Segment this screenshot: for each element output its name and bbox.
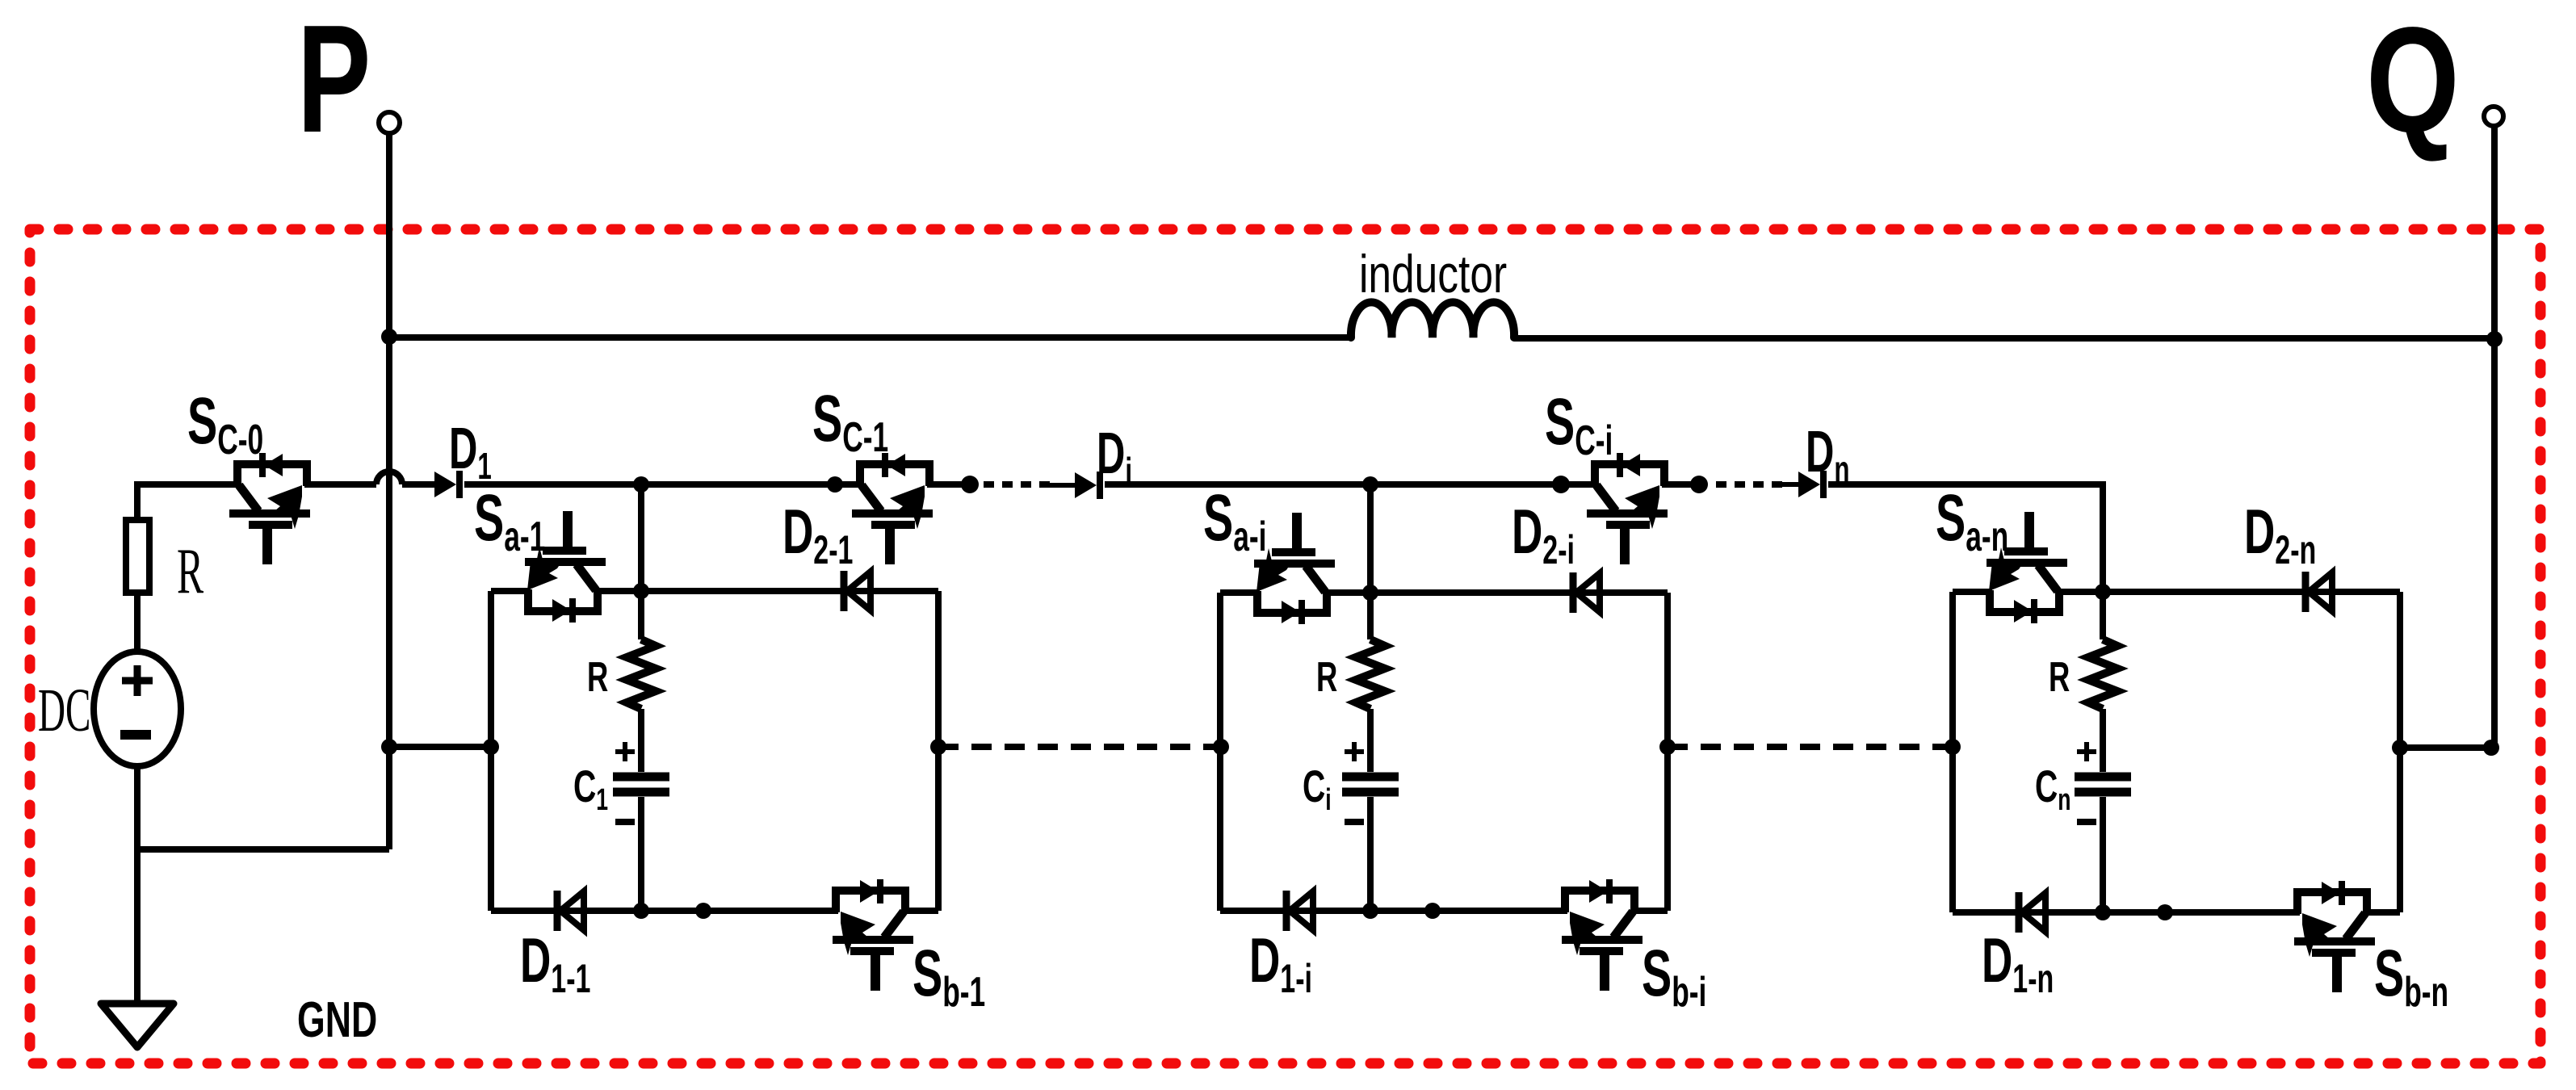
diode Dn xyxy=(1798,471,1823,498)
junction rail at cell i column xyxy=(1362,476,1378,493)
wire R to capacitor xyxy=(638,709,644,772)
diode D1 xyxy=(434,471,459,498)
dashed rail continuation xyxy=(984,481,1050,488)
junction dot right of column bottom xyxy=(1424,903,1441,919)
DC source minus xyxy=(120,730,151,740)
diode D_1-i xyxy=(1286,891,1313,931)
capacitor Ci plates xyxy=(1342,777,1399,792)
svg-text:Sa-1: Sa-1 xyxy=(474,480,545,560)
resistor R cell n xyxy=(2088,639,2117,709)
svg-text:Cn: Cn xyxy=(2035,761,2071,816)
DC source circle xyxy=(94,652,181,766)
wire DC bottom to P line xyxy=(137,846,389,853)
wire to Di xyxy=(1047,483,1075,488)
capacitor C1 plates xyxy=(613,777,669,792)
wire right of S_C-1 xyxy=(935,481,967,488)
svg-text:Sa-i: Sa-i xyxy=(1203,480,1266,560)
capacitor minus mark xyxy=(2077,819,2096,825)
junction cell i mid-right xyxy=(1659,739,1676,755)
dashed link cell i to cell n xyxy=(1668,744,1953,750)
svg-text:Sb-1: Sb-1 xyxy=(913,936,985,1015)
svg-text:GND: GND xyxy=(297,992,377,1048)
svg-text:Sb-i: Sb-i xyxy=(1642,936,1706,1015)
wire Di to S_C-i xyxy=(1105,481,1589,488)
svg-text:D1-n: D1-n xyxy=(1982,926,2054,1002)
wire capacitor down xyxy=(2100,797,2106,912)
cell i bottom wire xyxy=(1220,908,1668,914)
capacitor minus mark xyxy=(1345,819,1364,825)
svg-text:DC: DC xyxy=(38,677,90,744)
cell n left wire xyxy=(1949,592,1956,912)
terminal Q circle xyxy=(2484,107,2503,126)
cell n column wire upper xyxy=(2100,592,2106,639)
svg-text:Sb-n: Sb-n xyxy=(2374,936,2448,1015)
junction dot right of column bottom xyxy=(2157,904,2173,920)
wire hop over P line xyxy=(376,472,402,484)
switch S_a-i xyxy=(1252,513,1335,624)
switch S_a-n xyxy=(1984,512,2067,623)
junction right of S_C-1 xyxy=(961,476,979,493)
svg-text:D2-i: D2-i xyxy=(1512,497,1575,573)
svg-text:Q: Q xyxy=(2366,0,2460,164)
capacitor minus mark xyxy=(615,819,635,825)
junction column at cell bottom xyxy=(2095,904,2111,920)
capacitor plus mark xyxy=(2077,742,2096,761)
dashed rail continuation 2 xyxy=(1716,481,1785,488)
cell 1 right wire xyxy=(935,591,942,911)
cell n right wire xyxy=(2397,592,2403,912)
wire hop to D1 xyxy=(402,481,434,488)
junction column at cell top xyxy=(2095,584,2111,600)
junction column at cell bottom xyxy=(633,903,649,919)
switch S_C-0 xyxy=(229,453,313,564)
ground symbol xyxy=(101,1004,174,1047)
svg-text:D1-1: D1-1 xyxy=(520,926,590,1002)
wire cell n mid to Q line xyxy=(2400,744,2494,751)
junction top-left xyxy=(381,329,397,345)
junction rail at cell1 column xyxy=(633,476,649,493)
junction cell i mid-left xyxy=(1213,739,1229,755)
junction Q line bottom xyxy=(2483,740,2499,756)
switch S_C-i xyxy=(1587,453,1670,564)
wire to Dn xyxy=(1781,482,1798,487)
wire Dn to cell n column xyxy=(1828,484,2103,592)
switch S_a-1 xyxy=(522,511,606,623)
junction right of S_C-i xyxy=(1690,476,1708,493)
wire right of S_C-i xyxy=(1670,481,1699,488)
wire Q vertical xyxy=(2491,126,2498,748)
resistor R (rectangle) xyxy=(126,520,149,593)
wire capacitor down xyxy=(638,797,644,911)
cell 1 top wire xyxy=(491,588,938,594)
terminal P circle xyxy=(379,112,400,133)
wire top rail left of inductor xyxy=(389,334,1351,341)
diode Di xyxy=(1075,472,1100,499)
junction cell1 mid-left xyxy=(483,739,499,755)
svg-text:Ci: Ci xyxy=(1303,761,1332,816)
svg-text:D1-i: D1-i xyxy=(1249,926,1312,1002)
wire P vertical xyxy=(386,133,392,849)
wire capacitor down xyxy=(1367,797,1374,911)
svg-text:D1: D1 xyxy=(449,417,492,488)
wire from R up to S_C-0 xyxy=(137,484,232,520)
switch S_C-1 xyxy=(852,453,935,564)
svg-text:SC-i: SC-i xyxy=(1545,384,1613,463)
diode D_1-n xyxy=(2019,892,2045,933)
capacitor plus mark xyxy=(615,742,635,761)
capacitor Cn plates xyxy=(2075,777,2131,792)
wire R to capacitor xyxy=(1367,709,1374,772)
svg-text:C1: C1 xyxy=(573,761,608,816)
diode D_2-i xyxy=(1573,572,1600,613)
junction cell n mid-right xyxy=(2392,740,2408,756)
svg-text:SC-0: SC-0 xyxy=(187,384,263,463)
svg-text:D2-n: D2-n xyxy=(2244,497,2316,573)
capacitor plus mark xyxy=(1345,742,1364,761)
switch S_b-1 xyxy=(830,879,913,991)
switch S_b-n xyxy=(2292,881,2375,992)
junction column at cell top xyxy=(1362,585,1378,601)
cell i left wire xyxy=(1217,593,1223,911)
dashed link cell1 to cell i xyxy=(938,744,1221,750)
svg-text:R: R xyxy=(1316,652,1337,700)
cell i right wire xyxy=(1664,593,1671,911)
cell 1 left wire xyxy=(488,591,494,911)
wire P line to cell 1 mid xyxy=(389,744,491,750)
resistor R cell 1 xyxy=(627,639,656,709)
cell i column wire upper xyxy=(1367,484,1374,639)
junction left of S_C-i xyxy=(1552,476,1570,493)
switch S_b-i xyxy=(1559,879,1643,991)
inductor xyxy=(1351,302,1514,337)
svg-text:inductor: inductor xyxy=(1359,244,1507,304)
junction cell n mid-left xyxy=(1945,739,1961,755)
svg-text:Sa-n: Sa-n xyxy=(1936,480,2008,560)
junction cell1 mid-right xyxy=(930,739,946,755)
junction dot right of column bottom xyxy=(695,903,711,919)
cell i top wire xyxy=(1220,589,1668,596)
svg-text:SC-1: SC-1 xyxy=(812,381,888,460)
junction column at cell bottom xyxy=(1362,903,1378,919)
junction P line mid xyxy=(381,739,397,755)
cell n bottom wire xyxy=(1953,909,2400,916)
svg-text:D2-1: D2-1 xyxy=(782,497,853,573)
DC source plus xyxy=(122,665,153,696)
junction left of S_C-1 xyxy=(827,476,843,493)
diode D_1-1 xyxy=(557,891,584,931)
wire S_C-0 to hop xyxy=(313,481,376,488)
svg-text:R: R xyxy=(587,652,608,700)
svg-text:R: R xyxy=(2049,652,2070,700)
resistor R cell i xyxy=(1356,639,1385,709)
wire top rail right of inductor xyxy=(1514,335,2494,342)
diode D_2-n xyxy=(2305,572,2332,612)
svg-text:R: R xyxy=(177,536,204,607)
svg-text:P: P xyxy=(297,0,371,165)
cell 1 bottom wire xyxy=(491,908,938,914)
junction column at cell top xyxy=(633,583,649,599)
cell n top wire xyxy=(1953,589,2400,595)
junction top-right xyxy=(2486,331,2503,347)
diode D_2-1 xyxy=(844,571,871,611)
wire R to capacitor xyxy=(2100,709,2106,772)
red dashed border of converter block xyxy=(30,229,2540,1063)
wire DC source down to GND xyxy=(134,766,141,1004)
wire R to DC source xyxy=(134,593,141,652)
svg-text:Dn: Dn xyxy=(1806,420,1849,491)
cell 1 column wire upper xyxy=(638,484,644,639)
wire D1 to S_C-1 xyxy=(464,481,854,488)
